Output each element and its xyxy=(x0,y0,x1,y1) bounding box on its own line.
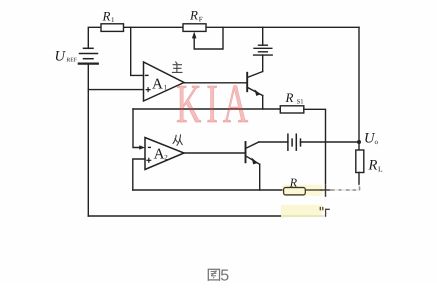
wire Q2 collector to battery B2 xyxy=(259,141,288,143)
svg-text:R: R xyxy=(285,90,294,105)
transistor Q1 xyxy=(247,72,263,110)
resistor R outline over band xyxy=(284,188,306,195)
wire RF wiper to top rail xyxy=(194,27,223,49)
wire top rail xyxy=(124,26,360,28)
resistor RL xyxy=(356,150,364,173)
op-amp A1 xyxy=(144,62,185,101)
wire Q1 emitter sense line xyxy=(133,108,280,110)
wire bottom feedback line xyxy=(133,189,284,191)
wire bottom rail corner marks xyxy=(320,207,330,217)
wire R right to junction (dark over band) xyxy=(305,189,322,191)
wire A2 output to Q2 base xyxy=(184,152,246,154)
label cong (slave) xyxy=(173,134,183,145)
resistor RS1 xyxy=(280,106,304,113)
label zhu (master) xyxy=(172,62,183,73)
svg-text:5: 5 xyxy=(220,268,229,285)
wire node R1-right down to A1 inverting input xyxy=(131,27,144,75)
battery UREF xyxy=(79,48,98,63)
wire bottom rail xyxy=(88,215,325,217)
label figure caption 图5 xyxy=(208,269,219,281)
watermark yellow band 1 xyxy=(283,185,323,196)
resistor RF potentiometer xyxy=(183,24,206,32)
svg-text:o: o xyxy=(375,138,379,146)
svg-text:A: A xyxy=(152,76,163,92)
svg-text:R: R xyxy=(368,158,378,174)
svg-text:1: 1 xyxy=(164,84,168,92)
svg-text:F: F xyxy=(199,16,203,24)
A2 inverting input arrowhead xyxy=(139,145,145,149)
svg-text:R: R xyxy=(289,175,298,189)
watermark white box 2 xyxy=(322,205,332,217)
wire battery B2 to output rail xyxy=(301,141,360,143)
svg-text:KIA: KIA xyxy=(176,73,253,134)
op-amp A1 plus sign xyxy=(146,87,151,92)
wire UREF bottom down to bottom rail xyxy=(87,64,89,216)
RF wiper arrowhead xyxy=(192,32,197,39)
svg-text:2: 2 xyxy=(164,154,168,162)
wire battery B1 to Q1 collector xyxy=(262,55,264,71)
wire RS1 right down to bottom rail xyxy=(304,109,326,196)
wire R1 left to Uref battery top xyxy=(88,27,101,48)
svg-text:R: R xyxy=(102,8,111,23)
resistor R xyxy=(284,188,306,195)
transistor Q2 xyxy=(246,142,260,190)
battery B1 xyxy=(254,45,273,55)
watermark yellow band 2 xyxy=(281,205,322,217)
wire R right to load bottom node xyxy=(305,189,359,191)
op-amp A2 minus sign xyxy=(148,146,151,148)
watermark white box 1 xyxy=(323,185,363,196)
svg-text:U: U xyxy=(55,49,67,65)
wire right rail xyxy=(358,27,360,150)
battery B2 xyxy=(288,134,301,150)
svg-text:REF: REF xyxy=(66,58,77,64)
wire A1 output to Q1 base xyxy=(184,82,247,84)
svg-text:S1: S1 xyxy=(297,98,304,105)
op-amp A2 xyxy=(145,138,184,170)
node Uo junction dot xyxy=(357,140,361,144)
resistor R1 xyxy=(101,24,124,32)
wire RL bottom xyxy=(358,173,360,191)
wire top rail to battery B1 xyxy=(262,27,264,45)
wire sense line down to A2 inverting input xyxy=(133,109,141,148)
svg-text:1: 1 xyxy=(111,16,115,24)
op-amp A1 minus sign xyxy=(145,74,149,76)
node junction cross RS1/R xyxy=(321,185,331,196)
wire A2 non-inverting input to bottom feedback xyxy=(133,159,145,190)
wire faint dashes under watermark xyxy=(331,187,360,191)
op-amp A2 plus sign xyxy=(146,158,151,163)
wire UREF node to A1 non-inverting input xyxy=(88,89,143,91)
svg-text:A: A xyxy=(154,147,165,163)
svg-text:L: L xyxy=(378,164,383,173)
svg-text:R: R xyxy=(189,8,198,23)
